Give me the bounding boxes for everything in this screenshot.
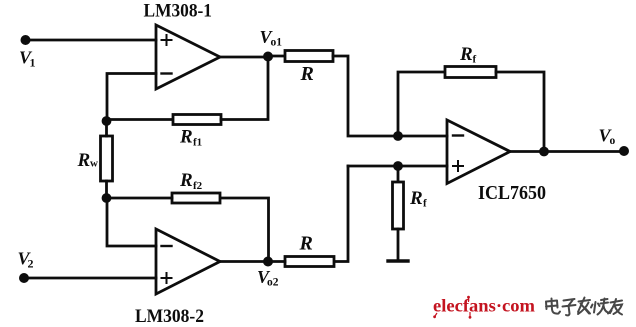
wire Rf to output node <box>496 72 544 152</box>
resistor R bottom <box>285 257 334 267</box>
svg-text:f: f <box>473 54 477 66</box>
svg-text:w: w <box>90 158 98 170</box>
svg-text:LM308-2: LM308-2 <box>135 306 204 327</box>
wire U1 output <box>220 56 268 59</box>
svg-text:R: R <box>179 170 193 191</box>
plus sign U3 <box>453 161 463 171</box>
minus sign U3 <box>453 134 463 136</box>
op-amp U2 LM308-2 <box>156 229 220 294</box>
svg-text:o2: o2 <box>267 277 279 289</box>
node A junction <box>102 116 112 126</box>
node plus junction <box>393 161 403 171</box>
watermark elecfans.com <box>433 296 535 319</box>
resistor Rw <box>101 136 113 181</box>
wire Rf2 to Vo2 <box>220 198 269 262</box>
wire Rf bottom to ground <box>397 229 400 260</box>
minus sign U1 <box>162 72 172 74</box>
svg-text:elecfans·com: elecfans·com <box>433 296 535 316</box>
char fa <box>578 298 590 315</box>
svg-text:o1: o1 <box>271 37 283 49</box>
wire R top to ICL7650 - input <box>333 56 447 136</box>
svg-text:R: R <box>77 150 91 171</box>
svg-text:f1: f1 <box>193 137 202 149</box>
wire Rf1 to Vo1 <box>221 57 268 120</box>
ground <box>388 259 408 262</box>
node Vo2 <box>263 257 273 267</box>
resistor R top <box>285 51 333 62</box>
wire node to Rf top <box>398 72 445 136</box>
svg-text:R: R <box>459 44 473 65</box>
char dian <box>546 299 560 314</box>
svg-text:LM308-1: LM308-1 <box>144 1 213 22</box>
wire node to Rf bottom <box>397 166 400 182</box>
svg-text:f: f <box>423 198 427 210</box>
wire U2 output <box>220 260 285 263</box>
terminal V1 <box>21 35 31 45</box>
wire node A to Rf1 <box>107 118 174 121</box>
resistor Rf bottom <box>393 182 404 229</box>
wire Vo1 to R top <box>268 55 285 58</box>
wire node B to U2 - input <box>107 198 156 246</box>
wire U1 - input <box>107 74 156 122</box>
wire R bottom to plus line <box>334 166 348 262</box>
node minus junction <box>393 131 403 141</box>
wire U3 output to Vo <box>510 150 624 153</box>
svg-text:f2: f2 <box>193 180 203 192</box>
node B junction <box>102 193 112 203</box>
terminal V2 <box>19 273 29 283</box>
svg-text:2: 2 <box>28 257 34 271</box>
terminal Vo <box>619 146 629 156</box>
svg-text:R: R <box>300 63 314 85</box>
node Vo1 <box>263 52 273 62</box>
svg-text:R: R <box>299 233 313 255</box>
svg-text:ICL7650: ICL7650 <box>478 182 546 204</box>
wire V2 to U2 + input <box>24 277 156 280</box>
op-amp U3 ICL7650 <box>447 120 510 184</box>
char you <box>608 299 622 315</box>
wire node B to Rf2 <box>107 197 173 200</box>
plus sign U1 <box>162 35 172 45</box>
wire Rw to node B <box>105 181 108 198</box>
wire V1 to LM308-1 + input <box>26 39 157 42</box>
resistor Rf1 <box>173 115 221 125</box>
minus sign U2 <box>162 245 172 247</box>
op-amp U1 LM308-1 <box>156 25 220 89</box>
node output junction <box>539 147 549 157</box>
resistor Rf top <box>445 67 496 78</box>
svg-text:o: o <box>610 135 616 147</box>
resistor Rf2 <box>172 193 220 203</box>
watermark trace decorations <box>433 296 471 319</box>
char shao <box>591 299 612 315</box>
watermark chinese characters <box>546 298 622 316</box>
svg-text:1: 1 <box>30 56 36 70</box>
wire node A to Rw <box>105 121 108 136</box>
wire plus input line <box>348 165 447 168</box>
plus sign U2 <box>162 273 172 283</box>
svg-text:R: R <box>409 188 423 209</box>
char zi <box>563 299 576 315</box>
svg-text:R: R <box>179 127 193 148</box>
